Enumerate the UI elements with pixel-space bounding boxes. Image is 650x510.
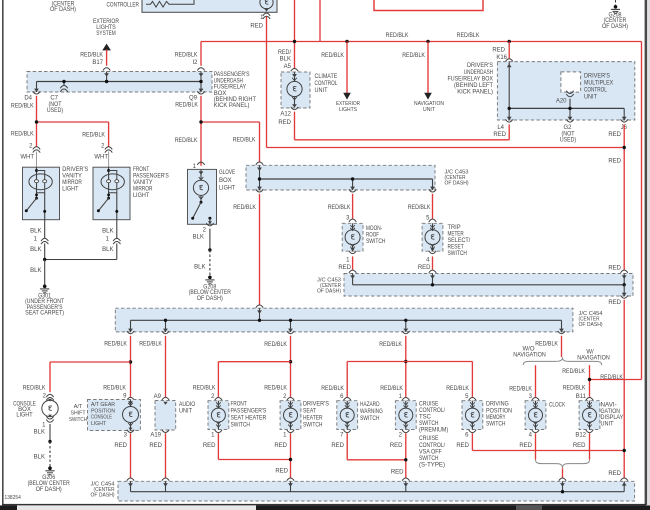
svg-text:RED: RED	[338, 265, 351, 271]
svg-text:OF DASH): OF DASH)	[91, 492, 115, 498]
svg-text:UNIT: UNIT	[179, 409, 192, 415]
svg-text:UNIT: UNIT	[315, 88, 328, 94]
svg-text:RED: RED	[418, 265, 431, 271]
svg-text:RED: RED	[519, 443, 532, 449]
svg-text:A/T: A/T	[74, 404, 83, 410]
svg-text:BLK: BLK	[30, 247, 41, 253]
svg-text:BOX: BOX	[219, 178, 232, 184]
svg-text:RED: RED	[278, 120, 291, 126]
svg-text:KICK PANEL): KICK PANEL)	[457, 90, 493, 96]
svg-text:(BEHIND RIGHT: (BEHIND RIGHT	[214, 97, 257, 103]
svg-text:RED/BLK: RED/BLK	[446, 386, 469, 392]
svg-text:VANITY: VANITY	[133, 180, 153, 186]
svg-text:USED): USED)	[560, 137, 576, 143]
svg-text:RED/BLK: RED/BLK	[563, 386, 586, 392]
svg-text:RED: RED	[275, 469, 288, 475]
svg-text:HEATER: HEATER	[303, 416, 323, 422]
svg-text:RED/BLK: RED/BLK	[535, 342, 558, 348]
svg-text:RED/BLK: RED/BLK	[139, 342, 162, 348]
svg-text:VANITY: VANITY	[62, 173, 82, 179]
svg-text:G2: G2	[563, 125, 572, 131]
svg-text:WARNING: WARNING	[360, 409, 383, 415]
svg-text:RED/BLK: RED/BLK	[379, 342, 402, 348]
svg-text:SWITCH: SWITCH	[419, 456, 439, 462]
svg-text:MULTIPLEX: MULTIPLEX	[584, 81, 613, 87]
svg-text:AUDIO: AUDIO	[179, 402, 195, 408]
svg-text:FRONT: FRONT	[231, 402, 247, 408]
svg-text:RED/BLK: RED/BLK	[80, 53, 103, 59]
svg-text:BLK: BLK	[30, 268, 41, 274]
svg-text:TRIP: TRIP	[448, 225, 461, 231]
svg-text:BLK: BLK	[30, 229, 41, 235]
svg-text:RED/BLK: RED/BLK	[600, 375, 623, 381]
svg-text:FUSE/RELAY BOX: FUSE/RELAY BOX	[448, 76, 494, 82]
svg-text:SEAT HEATER: SEAT HEATER	[231, 416, 267, 422]
svg-text:RED: RED	[390, 443, 403, 449]
svg-text:RED/BLK: RED/BLK	[175, 103, 198, 109]
svg-text:(PREMIUM): (PREMIUM)	[419, 427, 448, 433]
svg-text:SELECT/: SELECT/	[448, 238, 471, 244]
svg-text:BLK: BLK	[102, 247, 113, 253]
svg-text:KICK PANEL): KICK PANEL)	[214, 103, 250, 109]
svg-text:SWITCH: SWITCH	[231, 422, 251, 428]
svg-text:RED/BLK: RED/BLK	[457, 33, 480, 39]
svg-text:MIRROR: MIRROR	[62, 180, 82, 186]
svg-text:DRIVER'S: DRIVER'S	[467, 63, 493, 69]
svg-text:OF DASH): OF DASH)	[197, 296, 223, 302]
svg-text:RED/BLK: RED/BLK	[328, 205, 351, 211]
svg-text:BLK: BLK	[102, 229, 113, 235]
svg-text:LIGHT: LIGHT	[62, 186, 79, 192]
svg-text:SWITCH: SWITCH	[360, 416, 380, 422]
svg-text:PASSENGER'S: PASSENGER'S	[231, 409, 267, 415]
svg-text:RED: RED	[250, 23, 263, 29]
svg-text:OF DASH): OF DASH)	[50, 7, 76, 13]
svg-text:RED: RED	[149, 443, 162, 449]
svg-text:LIGHT: LIGHT	[219, 185, 236, 191]
svg-text:RED: RED	[492, 48, 505, 54]
svg-text:RED: RED	[203, 443, 216, 449]
svg-text:RED/BLK: RED/BLK	[264, 386, 287, 392]
svg-text:CRUISE: CRUISE	[419, 402, 439, 408]
svg-text:CRUISE: CRUISE	[419, 436, 439, 442]
svg-text:SHIFT: SHIFT	[71, 411, 87, 417]
svg-text:B11: B11	[576, 394, 587, 400]
svg-text:GLOVE: GLOVE	[219, 170, 235, 176]
svg-text:A19: A19	[150, 433, 161, 439]
svg-text:RED: RED	[456, 443, 469, 449]
svg-text:CLIMATE: CLIMATE	[315, 74, 338, 80]
svg-text:RED/BLK: RED/BLK	[23, 386, 46, 392]
svg-text:OF DASH): OF DASH)	[36, 487, 62, 493]
svg-text:RED/BLK: RED/BLK	[103, 386, 126, 392]
svg-text:ROOF: ROOF	[366, 233, 379, 239]
svg-text:RED/BLK: RED/BLK	[233, 138, 256, 144]
svg-text:WHT: WHT	[20, 155, 34, 161]
svg-text:Q9: Q9	[189, 96, 198, 102]
svg-text:L4: L4	[497, 125, 504, 131]
svg-text:RED/BLK: RED/BLK	[82, 133, 105, 139]
svg-text:PASSENGER'S: PASSENGER'S	[214, 72, 250, 78]
svg-text:RESET: RESET	[448, 245, 464, 251]
svg-text:POSITION: POSITION	[91, 408, 115, 414]
svg-text:BLK: BLK	[194, 265, 205, 271]
svg-text:CLOCK: CLOCK	[549, 403, 565, 409]
svg-text:RED/BLK: RED/BLK	[193, 386, 216, 392]
svg-text:LIGHT: LIGHT	[91, 421, 107, 427]
svg-text:SWITCH: SWITCH	[69, 417, 87, 423]
svg-text:UNIT: UNIT	[601, 421, 614, 427]
svg-text:CONTROL: CONTROL	[584, 88, 607, 94]
svg-text:CONTROL: CONTROL	[315, 81, 338, 87]
svg-text:BLK: BLK	[280, 57, 291, 63]
svg-text:DISPLAY: DISPLAY	[601, 415, 624, 421]
svg-text:RED: RED	[608, 132, 621, 138]
svg-text:RED/BLK: RED/BLK	[380, 386, 403, 392]
svg-text:138254: 138254	[5, 495, 22, 501]
svg-text:SWITCH: SWITCH	[366, 239, 386, 245]
svg-text:RED/BLK: RED/BLK	[402, 53, 425, 59]
svg-text:SWITCH: SWITCH	[419, 421, 439, 427]
svg-text:B12: B12	[575, 433, 586, 439]
svg-text:A/T GEAR: A/T GEAR	[91, 402, 115, 408]
svg-text:UNIT: UNIT	[423, 107, 436, 113]
svg-text:A12: A12	[280, 112, 291, 118]
svg-text:LIGHT: LIGHT	[16, 413, 33, 419]
svg-text:RED/BLK: RED/BLK	[264, 342, 287, 348]
svg-text:POSITION: POSITION	[486, 408, 512, 414]
svg-text:UNDERDASH: UNDERDASH	[214, 78, 243, 84]
svg-text:CONSOLE: CONSOLE	[91, 415, 112, 421]
svg-text:RED/BLK: RED/BLK	[321, 386, 344, 392]
svg-text:FRONT: FRONT	[133, 167, 149, 173]
svg-text:A9: A9	[154, 394, 162, 400]
svg-text:LIGHTS: LIGHTS	[339, 107, 357, 113]
svg-text:FUSE/RELAY: FUSE/RELAY	[214, 85, 247, 91]
svg-text:RED: RED	[608, 300, 621, 306]
svg-text:RED/BLK: RED/BLK	[321, 53, 344, 59]
svg-text:RED/: RED/	[278, 50, 291, 56]
svg-text:C7: C7	[50, 96, 58, 102]
svg-text:MIRROR: MIRROR	[133, 186, 153, 192]
svg-text:I2: I2	[192, 60, 198, 66]
svg-text:RED: RED	[608, 266, 621, 272]
svg-text:RED/BLK: RED/BLK	[11, 104, 34, 110]
svg-text:RED: RED	[114, 443, 127, 449]
svg-text:SWITCH: SWITCH	[303, 422, 323, 428]
svg-text:SWITCH: SWITCH	[448, 251, 468, 257]
svg-text:METER: METER	[448, 232, 465, 238]
svg-text:RED/BLK: RED/BLK	[408, 205, 431, 211]
svg-text:SEAT CARPET): SEAT CARPET)	[25, 311, 64, 317]
svg-text:HAZARD: HAZARD	[360, 402, 380, 408]
svg-text:SEAT: SEAT	[303, 409, 316, 415]
svg-text:RED/BLK: RED/BLK	[175, 138, 198, 144]
svg-text:UNDERDASH: UNDERDASH	[464, 70, 493, 76]
svg-text:NAVIGATION: NAVIGATION	[513, 353, 546, 359]
svg-text:(S-TYPE): (S-TYPE)	[419, 463, 445, 469]
svg-text:DRIVER'S: DRIVER'S	[584, 74, 610, 80]
svg-text:DRIVER'S: DRIVER'S	[303, 402, 329, 408]
svg-text:NAVIGATION: NAVIGATION	[577, 355, 610, 361]
svg-text:RED/BLK: RED/BLK	[509, 387, 532, 393]
svg-text:RED/BLK: RED/BLK	[233, 205, 256, 211]
svg-text:DRIVING: DRIVING	[486, 402, 509, 408]
svg-text:BOX: BOX	[214, 91, 227, 97]
svg-text:B17: B17	[92, 60, 103, 66]
svg-text:UNIT: UNIT	[584, 95, 597, 101]
svg-text:D4: D4	[24, 96, 32, 102]
svg-text:A5: A5	[284, 64, 292, 70]
svg-text:RED/BLK: RED/BLK	[11, 132, 34, 138]
svg-text:GATION: GATION	[601, 409, 621, 415]
svg-text:RED: RED	[573, 443, 586, 449]
svg-text:BLK: BLK	[34, 430, 45, 436]
svg-text:RED: RED	[493, 132, 506, 138]
svg-text:OF DASH): OF DASH)	[579, 322, 603, 328]
svg-text:MOON-: MOON-	[366, 226, 382, 232]
svg-text:RED: RED	[608, 471, 621, 477]
svg-text:CONTROL/: CONTROL/	[419, 443, 445, 449]
svg-text:TSC: TSC	[419, 415, 432, 421]
svg-text:BLK: BLK	[34, 455, 45, 461]
svg-text:RED/BLK: RED/BLK	[104, 342, 127, 348]
svg-text:OF DASH): OF DASH)	[445, 181, 469, 187]
svg-text:BLK: BLK	[193, 235, 204, 241]
svg-text:RED: RED	[331, 443, 344, 449]
svg-text:SWITCH: SWITCH	[486, 422, 506, 428]
svg-text:CONTROL/: CONTROL/	[419, 408, 445, 414]
svg-text:RED: RED	[391, 470, 404, 476]
svg-text:RED: RED	[608, 159, 621, 165]
svg-text:RED/BLK: RED/BLK	[175, 53, 198, 59]
svg-text:A20: A20	[556, 98, 567, 104]
svg-text:NAVI-: NAVI-	[601, 403, 617, 409]
svg-text:CONTROLLER: CONTROLLER	[107, 2, 140, 8]
svg-text:SYSTEM: SYSTEM	[96, 31, 116, 37]
svg-text:LIGHT: LIGHT	[133, 193, 150, 199]
svg-text:(BEHIND LEFT: (BEHIND LEFT	[454, 83, 493, 89]
svg-text:USED): USED)	[47, 108, 63, 114]
svg-text:PASSENGER'S: PASSENGER'S	[133, 173, 169, 179]
svg-text:RED/BLK: RED/BLK	[562, 369, 585, 375]
svg-text:OF DASH): OF DASH)	[602, 24, 628, 30]
svg-text:OF DASH): OF DASH)	[317, 289, 341, 295]
svg-text:RED: RED	[274, 443, 287, 449]
svg-text:DRIVER'S: DRIVER'S	[62, 167, 88, 173]
svg-text:MEMORY: MEMORY	[486, 415, 506, 421]
svg-text:VSA OFF: VSA OFF	[419, 449, 442, 455]
svg-text:RED/BLK: RED/BLK	[386, 33, 409, 39]
svg-text:WHT: WHT	[94, 155, 108, 161]
